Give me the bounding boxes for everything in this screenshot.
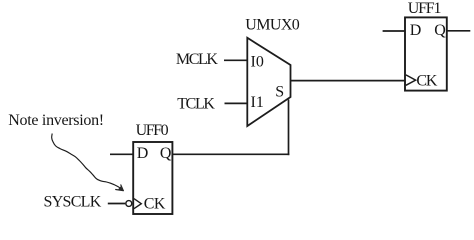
svg-text:CK: CK [144, 196, 166, 213]
wire MCLK to UMUX0 I0 [224, 59, 248, 61]
svg-text:MCLK: MCLK [176, 51, 218, 68]
svg-text:UMUX0: UMUX0 [245, 17, 299, 34]
svg-text:TCLK: TCLK [177, 96, 215, 113]
clock triangle UFF1 [406, 75, 416, 85]
wire UFF0 D input stub [110, 153, 133, 155]
flip-flop UFF0 [133, 142, 172, 214]
svg-text:Q: Q [160, 145, 172, 162]
wire TCLK to UMUX0 I1 [225, 102, 248, 104]
svg-text:SYSCLK: SYSCLK [44, 194, 102, 211]
flip-flop UFF1 [405, 17, 447, 90]
svg-text:I0: I0 [251, 53, 264, 70]
wire select vertical to UMUX0 S [288, 100, 290, 156]
svg-text:UFF0: UFF0 [136, 122, 169, 139]
svg-text:Note inversion!: Note inversion! [8, 112, 104, 129]
clock triangle UFF0 [134, 199, 141, 209]
svg-text:D: D [410, 22, 422, 39]
wire UFF0 Q to select node [172, 153, 289, 155]
wire SYSCLK to inversion bubble [108, 203, 126, 205]
svg-text:CK: CK [416, 72, 437, 89]
svg-text:I1: I1 [251, 94, 264, 111]
wire UMUX0 output to UFF1 CK [291, 80, 406, 82]
wire UFF1 D input stub [383, 30, 405, 32]
annotation arrow curve [52, 134, 121, 189]
multiplexer UMUX0 [247, 38, 290, 126]
svg-text:UFF1: UFF1 [408, 0, 442, 17]
svg-text:Q: Q [434, 22, 446, 39]
svg-text:D: D [137, 145, 149, 162]
annotation arrowhead [116, 185, 124, 191]
svg-text:S: S [275, 84, 284, 101]
wire UFF1 Q output [447, 30, 471, 32]
inversion bubble on UFF0 CK [126, 201, 132, 207]
